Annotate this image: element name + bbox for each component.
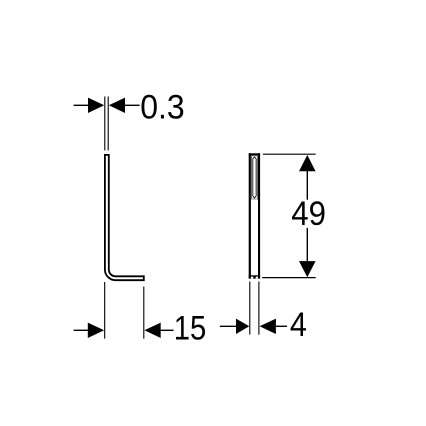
dimension 49 line upper: [306, 171, 308, 200]
slot bottom white patch: [252, 195, 257, 198]
extension line 0.3 left: [104, 97, 106, 151]
dimension 15 left arrow: [88, 323, 104, 338]
dimension 4 left arrow: [236, 319, 249, 334]
extension line 15 right: [143, 287, 145, 339]
inner gray slot region: [251, 155, 258, 199]
top cap: [249, 153, 260, 155]
extension line 0.3 right: [107, 97, 109, 151]
svg-text:4: 4: [290, 306, 307, 344]
bottom cap: [249, 275, 260, 278]
extension line 4 left: [249, 282, 251, 335]
left wall band: [249, 153, 251, 278]
extension line 15 left: [104, 282, 106, 339]
bottom notch right: [256, 277, 258, 279]
dimension 4 right leader: [276, 325, 287, 327]
dimension 0.3 right leader: [125, 104, 140, 106]
dimension 4 left leader: [220, 325, 236, 327]
svg-text:0.3: 0.3: [140, 89, 185, 127]
dimension 15 right leader: [161, 329, 174, 331]
svg-text:15: 15: [174, 310, 207, 348]
dimension 49 bottom arrow: [299, 261, 316, 277]
L-profile part (front view): [105, 155, 144, 280]
dimension 15 right arrow: [144, 323, 160, 338]
side view part (right figure): [249, 153, 260, 278]
dimension 0.3 left leader: [74, 104, 89, 106]
dimension 0.3 right arrow: [109, 98, 125, 113]
dimension 15 left leader: [74, 329, 88, 331]
dimension 49 line lower: [306, 228, 308, 262]
right wall band: [258, 153, 260, 278]
extension line 49 top: [263, 153, 316, 155]
slot top white patch: [252, 156, 257, 159]
bottom notch left: [251, 277, 253, 279]
dimension 49 top arrow: [299, 155, 316, 171]
slot bottom chevron: [252, 196, 256, 199]
white slot line: [253, 157, 255, 198]
extension line 4 right: [258, 282, 260, 335]
slot top chevron: [252, 157, 256, 160]
dimension 4 right arrow: [260, 319, 276, 334]
extension line 49 bottom: [262, 277, 316, 279]
dimension 0.3 left arrow: [88, 98, 104, 113]
svg-text:49: 49: [291, 195, 326, 233]
